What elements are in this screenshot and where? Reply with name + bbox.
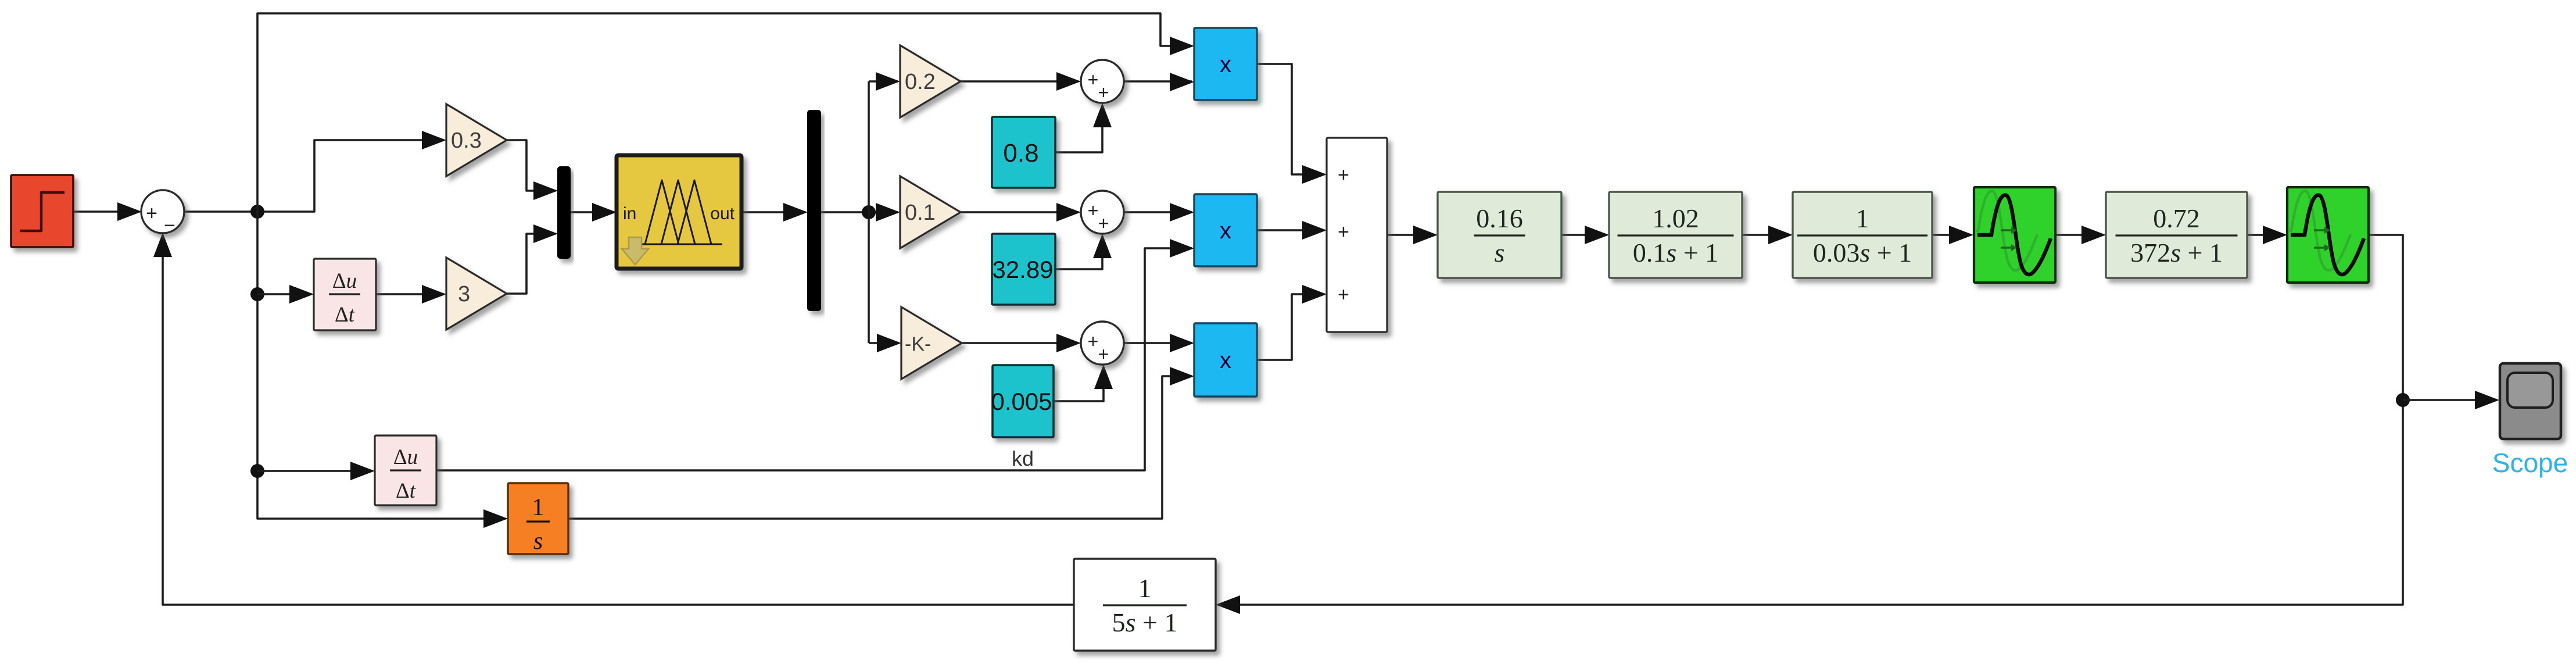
- svg-text:s: s: [533, 528, 543, 555]
- svg-text:+: +: [1338, 284, 1349, 306]
- svg-text:+: +: [1088, 69, 1099, 90]
- svg-text:3: 3: [458, 282, 470, 306]
- svg-text:0.1s + 1: 0.1s + 1: [1633, 238, 1718, 267]
- svg-text:-K-: -K-: [905, 333, 931, 355]
- svg-text:1.02: 1.02: [1652, 204, 1699, 233]
- svg-text:in: in: [623, 204, 636, 223]
- svg-text:+: +: [1098, 82, 1109, 103]
- svg-text:s: s: [1495, 238, 1505, 267]
- svg-text:0.1: 0.1: [905, 201, 936, 225]
- svg-text:0.16: 0.16: [1476, 204, 1523, 233]
- svg-text:+: +: [1338, 164, 1349, 186]
- svg-text:+: +: [1098, 344, 1109, 365]
- svg-text:0.3: 0.3: [451, 128, 482, 153]
- svg-text:372s + 1: 372s + 1: [2130, 238, 2223, 267]
- svg-text:x: x: [1220, 218, 1231, 244]
- svg-text:0.72: 0.72: [2153, 204, 2200, 233]
- svg-text:Δu: Δu: [393, 445, 418, 469]
- svg-text:0.005: 0.005: [991, 388, 1052, 415]
- svg-text:5s + 1: 5s + 1: [1112, 608, 1178, 637]
- svg-text:0.03s + 1: 0.03s + 1: [1813, 238, 1912, 267]
- svg-text:Δt: Δt: [335, 303, 356, 327]
- svg-text:out: out: [710, 204, 735, 223]
- svg-text:+: +: [1098, 213, 1109, 234]
- svg-text:−: −: [164, 215, 175, 237]
- svg-text:+: +: [1088, 200, 1099, 221]
- svg-text:x: x: [1220, 348, 1231, 373]
- svg-text:1: 1: [532, 494, 544, 521]
- svg-text:Δt: Δt: [396, 479, 417, 503]
- svg-text:32.89: 32.89: [992, 256, 1053, 283]
- svg-text:+: +: [146, 202, 157, 224]
- svg-text:1: 1: [1856, 204, 1869, 233]
- svg-text:0.2: 0.2: [905, 70, 936, 94]
- svg-text:+: +: [1338, 221, 1349, 243]
- svg-text:x: x: [1220, 52, 1231, 77]
- svg-text:0.8: 0.8: [1003, 139, 1038, 167]
- svg-text:kd: kd: [1012, 447, 1034, 470]
- svg-text:1: 1: [1138, 573, 1152, 603]
- svg-text:Δu: Δu: [332, 269, 357, 293]
- svg-text:Scope: Scope: [2492, 448, 2568, 478]
- svg-text:+: +: [1088, 331, 1099, 352]
